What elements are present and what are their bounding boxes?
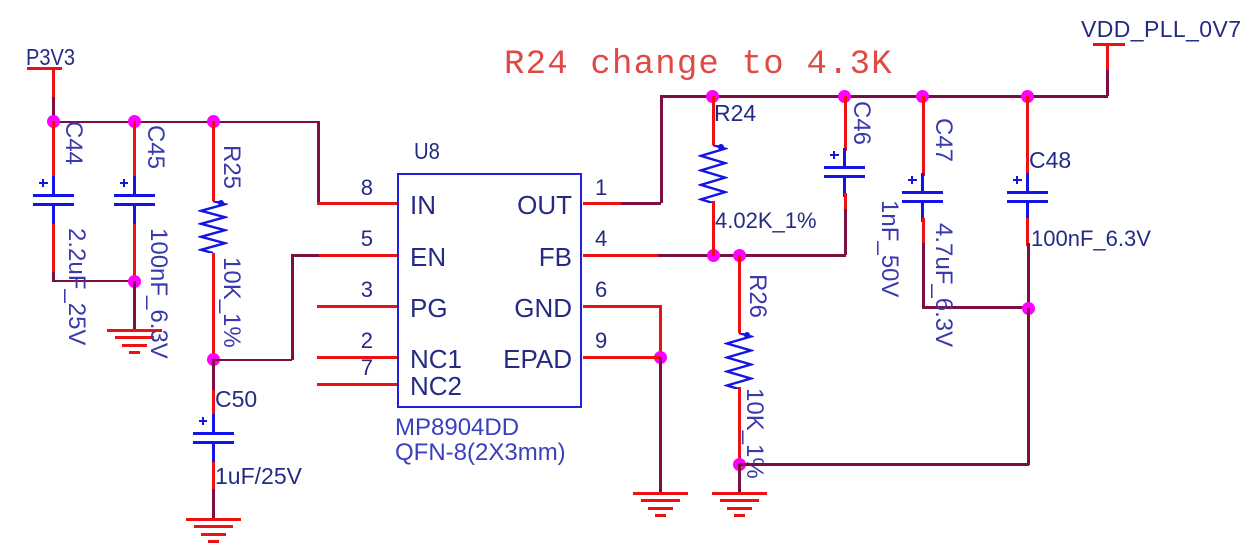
resistor R26 top lead bbox=[738, 255, 741, 333]
capacitor C46 top lead bbox=[844, 96, 847, 151]
capacitor C48 top lead bbox=[1026, 96, 1029, 176]
pin number 4 bbox=[595, 226, 607, 252]
pin 2 stub bbox=[317, 356, 397, 359]
wire VDD drop bbox=[1106, 69, 1109, 96]
node C44-C45 junction bbox=[128, 275, 141, 288]
ground under EPAD bbox=[633, 492, 688, 495]
ground under C50 bbox=[186, 518, 241, 521]
capacitor C47 bbox=[921, 173, 924, 191]
capacitor C44 bbox=[52, 176, 55, 194]
pin name FB bbox=[454, 242, 572, 273]
capacitor C48 bottom lead bbox=[1026, 218, 1029, 246]
pin name PG bbox=[410, 293, 448, 324]
wire C47 horizontal bbox=[922, 306, 1029, 309]
wire FB horizontal bbox=[658, 254, 846, 257]
value 10K_1% R26 bbox=[740, 388, 768, 479]
node R24 top junction bbox=[706, 90, 719, 103]
capacitor C50 bbox=[212, 414, 215, 432]
wire C45 to ground bbox=[133, 281, 136, 329]
node C47 junction bbox=[916, 90, 929, 103]
resistor R25 top lead bbox=[212, 121, 215, 201]
ground under C45 bbox=[107, 329, 162, 332]
label R24 bbox=[714, 100, 756, 127]
value 4.7uF_6.3V bbox=[929, 223, 957, 347]
wire drop to pin 8 bbox=[317, 121, 320, 204]
wire C48 down bbox=[1027, 243, 1030, 308]
pin name GND bbox=[454, 293, 572, 324]
pin number 2 bbox=[333, 328, 373, 354]
value 100nF_6.3V C48 bbox=[1031, 226, 1151, 252]
pin number 9 bbox=[595, 328, 607, 354]
node C47-C48 junction bbox=[1022, 302, 1035, 315]
wire P3V3 red drop bbox=[52, 68, 55, 98]
pin 6 stub bbox=[583, 305, 660, 308]
resistor R25 bottom lead bbox=[212, 253, 215, 360]
wire OUT link bbox=[621, 202, 661, 205]
value 100nF_6.3V bbox=[144, 228, 172, 359]
capacitor C46 bottom lead bbox=[844, 193, 847, 213]
label QFN-8(2X3mm) bbox=[395, 439, 566, 467]
label C45 bbox=[141, 125, 169, 169]
node FB junction 2 bbox=[733, 249, 746, 262]
node R25 bottom junction bbox=[207, 353, 220, 366]
label R26 bbox=[743, 274, 771, 318]
pin number 7 bbox=[333, 355, 373, 381]
pin number 1 bbox=[595, 175, 607, 201]
node GND-EPAD junction bbox=[654, 351, 667, 364]
pin name IN bbox=[410, 190, 436, 221]
wire pin6 riser bbox=[659, 305, 662, 358]
label R25 bbox=[217, 145, 245, 189]
capacitor C50 bottom lead bbox=[212, 462, 215, 492]
pin 5 stub bbox=[319, 254, 397, 257]
node R25 junction bbox=[207, 115, 220, 128]
pin 3 stub bbox=[317, 305, 397, 308]
pin 1 stub bbox=[583, 202, 622, 205]
resistor R25 bbox=[198, 201, 228, 253]
wire EN riser bbox=[291, 254, 294, 360]
value 4.02K_1% bbox=[715, 208, 817, 234]
pin 4 stub bbox=[583, 254, 659, 257]
capacitor C45 bottom lead bbox=[133, 224, 136, 282]
wire left bus bbox=[52, 121, 319, 124]
capacitor C45 top lead bbox=[133, 121, 136, 181]
wire R25 to EN riser bbox=[212, 359, 292, 362]
capacitor C48 bbox=[1026, 173, 1029, 191]
pin 9 stub bbox=[583, 356, 660, 359]
pin name NC2 bbox=[410, 371, 462, 402]
pin 7 stub bbox=[317, 383, 397, 386]
node FB junction 1 bbox=[707, 249, 720, 262]
value 1uF/25V bbox=[215, 463, 302, 490]
wire R26 to ground bbox=[738, 464, 741, 492]
value 10K_1% R25 bbox=[217, 257, 245, 348]
capacitor C44 top lead bbox=[52, 121, 55, 181]
label C46 bbox=[847, 101, 875, 145]
capacitor C46 bbox=[843, 148, 846, 166]
capacitor C47 top lead bbox=[922, 96, 925, 176]
wire OUT riser bbox=[660, 95, 663, 203]
capacitor C45 bbox=[133, 176, 136, 194]
value 1nF_50V bbox=[875, 200, 903, 297]
node C48 junction bbox=[1021, 90, 1034, 103]
label C44 bbox=[59, 121, 87, 165]
wire P3V3 to bus bbox=[52, 97, 55, 122]
capacitor C50 top lead bbox=[212, 390, 215, 418]
wire C50 to ground bbox=[212, 489, 215, 518]
annotation R24 change to 4.3K bbox=[504, 46, 893, 84]
power label P3V3 bbox=[26, 44, 75, 71]
pin name EN bbox=[410, 242, 446, 273]
wire C47 down bbox=[922, 243, 925, 307]
pin name OUT bbox=[454, 190, 572, 221]
node R26 bottom junction bbox=[733, 458, 746, 471]
node C44 junction bbox=[47, 115, 60, 128]
pin number 8 bbox=[333, 175, 373, 201]
wire bottom horizontal bbox=[739, 463, 1029, 466]
resistor R24 bbox=[698, 145, 728, 203]
pin number 6 bbox=[595, 277, 607, 303]
wire EPAD to ground bbox=[659, 357, 662, 492]
pin name EPAD bbox=[454, 344, 572, 375]
wire top bus bbox=[660, 95, 1108, 98]
node C45 junction bbox=[128, 115, 141, 128]
pin number 5 bbox=[333, 226, 373, 252]
label C50 bbox=[215, 386, 257, 413]
value 2.2uF_25V bbox=[62, 228, 90, 345]
pin 8 stub bbox=[317, 202, 397, 205]
resistor R26 bottom lead bbox=[738, 387, 741, 465]
ground under R26 bbox=[712, 492, 767, 495]
wire EN horizontal bbox=[291, 254, 320, 257]
resistor R24 bottom lead bbox=[712, 201, 715, 256]
node C46 junction bbox=[838, 90, 851, 103]
capacitor C47 bottom lead bbox=[922, 218, 925, 246]
wire R25 junction to C50 bbox=[212, 359, 215, 390]
op-amp U8 body bbox=[397, 173, 582, 408]
resistor R24 top lead bbox=[712, 96, 715, 145]
wire VDD red bbox=[1106, 44, 1109, 70]
wire C44 elbow bbox=[52, 272, 55, 281]
wire right riser bbox=[1027, 308, 1030, 465]
capacitor C44 bottom lead bbox=[52, 224, 55, 274]
label U8 bbox=[414, 138, 440, 165]
resistor R26 bbox=[724, 333, 754, 389]
label C47 bbox=[929, 118, 957, 162]
power label VDD_PLL_0V7 bbox=[1081, 16, 1241, 43]
pin number 3 bbox=[333, 277, 373, 303]
label C48 bbox=[1029, 147, 1071, 174]
pin name NC1 bbox=[410, 344, 462, 375]
wire C46 to FB bbox=[844, 209, 847, 255]
label MP8904DD bbox=[395, 414, 519, 442]
